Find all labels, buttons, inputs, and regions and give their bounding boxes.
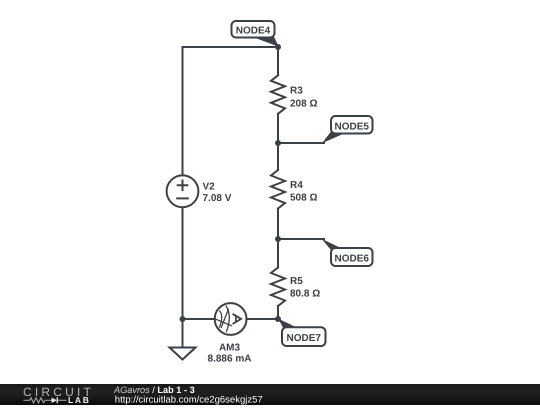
node NODE6 flag — [322, 239, 373, 266]
wire right vertical seg2 — [277, 114, 279, 170]
ground — [170, 348, 196, 360]
wire top horizontal — [183, 46, 279, 48]
wire bottom right — [247, 318, 278, 320]
wire node5 stub — [278, 142, 324, 144]
svg-text:http://circuitlab.com/ce2g6sek: http://circuitlab.com/ce2g6sekgjz57 — [115, 395, 263, 405]
logo resistor-diode glyph — [23, 397, 66, 403]
wire bottom left — [183, 318, 215, 320]
footer bar — [0, 384, 540, 405]
label R4 value — [290, 180, 317, 203]
node NODE4 flag — [232, 21, 279, 47]
svg-text:8.886 mA: 8.886 mA — [208, 354, 252, 365]
ammeter AM3 — [215, 303, 247, 335]
wire right vertical seg1 — [277, 47, 279, 75]
node junction dot node6 — [275, 236, 281, 242]
node junction dot bottom-left — [180, 316, 186, 322]
voltage source V2 — [167, 175, 199, 207]
resistor R3 — [271, 75, 285, 114]
label R5 value — [290, 276, 320, 299]
label R3 value — [290, 86, 317, 110]
svg-text:508 Ω: 508 Ω — [290, 192, 317, 203]
wire left vertical upper — [182, 47, 184, 175]
svg-text:NODE7: NODE7 — [286, 333, 321, 344]
node NODE5 flag — [322, 116, 373, 143]
label V2 value — [203, 181, 232, 204]
node junction dot top — [275, 44, 281, 50]
wire right vertical seg4 — [277, 306, 279, 319]
node junction dot node7 — [275, 316, 281, 322]
svg-text:LAB: LAB — [68, 395, 91, 405]
svg-text:80.8 Ω: 80.8 Ω — [290, 288, 320, 299]
node junction dot node5 — [275, 140, 281, 146]
svg-text:R5: R5 — [290, 276, 303, 287]
wire right vertical seg3 — [277, 209, 279, 268]
svg-text:7.08 V: 7.08 V — [203, 193, 232, 204]
node NODE7 flag — [278, 319, 325, 346]
svg-text:R3: R3 — [290, 86, 303, 97]
label AM3 value — [208, 343, 252, 365]
svg-text:V2: V2 — [203, 181, 216, 192]
svg-text:NODE6: NODE6 — [334, 253, 369, 264]
resistor R4 — [271, 170, 285, 209]
wire node6 stub — [278, 238, 324, 240]
svg-text:NODE4: NODE4 — [236, 25, 271, 36]
svg-text:NODE5: NODE5 — [334, 121, 369, 132]
svg-text:AM3: AM3 — [219, 343, 241, 354]
svg-text:208 Ω: 208 Ω — [290, 98, 317, 109]
resistor R5 — [271, 268, 285, 307]
svg-text:R4: R4 — [290, 180, 303, 191]
wire left vertical lower — [182, 207, 184, 319]
wire ground stub — [182, 319, 184, 348]
